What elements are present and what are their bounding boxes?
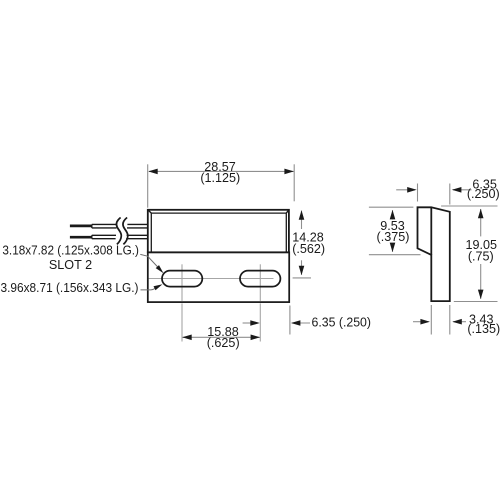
dim 3.43 arrow right-pointing <box>420 319 430 325</box>
dim 28.57 arrow right <box>284 169 294 175</box>
dim 9.53 arrow down <box>390 243 396 253</box>
wire 1 insulation <box>92 224 148 228</box>
dim 6.35 side arrow left-pointing <box>452 187 462 193</box>
svg-text:6.35 (.250): 6.35 (.250) <box>312 316 372 330</box>
dim 28.57 line <box>149 170 294 172</box>
dim 28.57 arrow left <box>148 169 158 175</box>
wire break symbol <box>116 218 127 245</box>
dim 19.05 shaft bottom <box>480 264 482 299</box>
dim 14.28 ext line <box>293 277 311 279</box>
body inner right edge <box>285 213 287 252</box>
dim 14.28 line lower <box>301 260 303 275</box>
svg-text:(1.125): (1.125) <box>200 171 240 185</box>
svg-text:3.18x7.82 (.125x.308 LG.): 3.18x7.82 (.125x.308 LG.) <box>2 244 139 258</box>
dim 9.53 ext line top <box>369 206 414 208</box>
dim 9.53 ext line bottom <box>369 254 421 256</box>
dim 6.35 front arrow left-pointing <box>291 320 301 326</box>
dim 6.35 side ext line right <box>449 184 451 205</box>
slot label 1 leader arrowhead <box>156 265 164 273</box>
dim 15.88 arrow left <box>182 335 192 341</box>
body chamfer top-left <box>148 210 152 213</box>
dim 28.57 ext line right <box>293 164 295 201</box>
dim 19.05 arrow down <box>478 290 484 300</box>
body (front view) <box>148 210 289 253</box>
dim 6.35 side arrow right-pointing <box>407 187 417 193</box>
dim 3.43 ext line left <box>430 305 432 335</box>
body inner left edge <box>150 213 152 252</box>
dim 3.43 arrow left-pointing <box>452 319 462 325</box>
body inner top edge <box>151 212 286 214</box>
dim 15.88 line <box>183 336 260 338</box>
dim 6.35 side arrow line right <box>453 189 472 191</box>
svg-text:3.96x8.71 (.156x.343 LG.): 3.96x8.71 (.156x.343 LG.) <box>1 281 139 295</box>
dim 3.43 arrow line right <box>453 321 466 323</box>
svg-text:(.75): (.75) <box>468 250 494 264</box>
svg-text:(.562): (.562) <box>292 242 325 256</box>
wire lead 2 (bare) <box>70 236 92 239</box>
dim 6.35 front arrow line left <box>243 322 258 324</box>
dim 6.35 front arrow right-pointing <box>250 320 259 326</box>
dim 3.43 ext line right <box>449 305 451 335</box>
svg-text:(.625): (.625) <box>207 336 240 350</box>
dim 9.53 arrow up <box>390 210 396 220</box>
slot 2 fill <box>240 271 280 287</box>
dim 9.53 shaft top <box>392 210 394 217</box>
side view profile <box>418 207 450 301</box>
slot 1 fill <box>162 271 202 287</box>
slot 2 vertical centerline <box>259 264 261 301</box>
dim 6.35 front arrow line right <box>292 322 310 324</box>
svg-text:(.375): (.375) <box>377 230 410 244</box>
dim 19.05 ext line top <box>441 205 497 207</box>
flange outline <box>148 252 289 302</box>
dim 14.28 arrow down <box>299 266 305 276</box>
dim 15.88 arrow right <box>251 335 261 341</box>
dim 3.43 arrow line left <box>413 321 429 323</box>
slot horizontal centerline <box>149 278 274 280</box>
dim 9.53 shaft bottom <box>392 243 394 245</box>
dim 19.05 ext line bottom <box>454 301 498 303</box>
svg-text:(.250): (.250) <box>467 187 500 201</box>
body chamfer top-right <box>286 210 289 213</box>
side view inner edge <box>430 207 432 255</box>
slot label 2 leader arrowhead <box>154 284 163 290</box>
dim 19.05 shaft top <box>480 209 482 236</box>
dim 28.57 ext line left <box>147 164 149 207</box>
slot label 2 leader <box>141 288 156 290</box>
dim 6.35 front ext line <box>289 306 291 335</box>
dim 19.05 arrow up <box>478 209 484 219</box>
slot 2 outline <box>240 271 280 287</box>
svg-text:SLOT 2: SLOT 2 <box>49 258 92 272</box>
slot 1 vertical centerline <box>181 264 183 301</box>
flange plate (front view) <box>148 252 289 302</box>
slot 1 outline <box>162 271 202 287</box>
dim 6.35 side arrow line left <box>396 189 415 191</box>
wire 2 insulation <box>92 235 148 238</box>
svg-text:(.135): (.135) <box>467 322 500 336</box>
wire lead 1 (bare) <box>70 225 92 228</box>
dim 6.35 side ext line left <box>417 184 419 202</box>
slot label 1 leader <box>140 254 158 267</box>
dim 14.28 arrow up <box>299 210 305 220</box>
dim 14.28 line upper <box>301 211 303 229</box>
